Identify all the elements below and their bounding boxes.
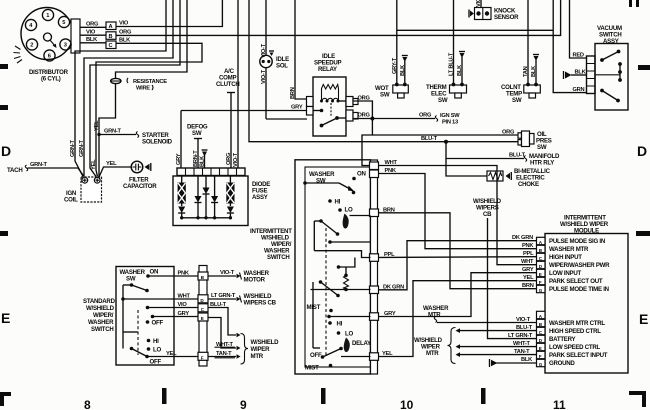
wire BLU-T to manifold htr rly <box>446 142 560 167</box>
resistance wire label <box>127 78 167 92</box>
wire TAN-T to wiper motor brace <box>208 351 241 359</box>
svg-text:BLU-T: BLU-T <box>509 153 526 159</box>
idle speedup relay caption <box>314 53 342 73</box>
grid tick x163 <box>162 388 167 404</box>
module upper pin captions <box>549 238 610 293</box>
svg-text:PPL: PPL <box>384 252 395 258</box>
svg-text:BLU-T: BLU-T <box>516 325 533 331</box>
DELAY label <box>352 340 371 347</box>
wire distributor A ORG <box>80 22 106 28</box>
svg-text:PIN 13: PIN 13 <box>442 120 458 126</box>
svg-text:PPL: PPL <box>523 251 534 257</box>
wire VIO-T from top into diode fuse assy <box>233 0 239 168</box>
svg-text:WIPER/WASHER PWR: WIPER/WASHER PWR <box>549 262 610 269</box>
resistance wire branch <box>94 0 187 177</box>
wire ORG relay lower output <box>353 113 372 119</box>
wire GRY switch to module E <box>379 267 537 317</box>
svg-text:HIGH SPEED CTRL: HIGH SPEED CTRL <box>549 328 601 335</box>
washer sw caption (standard) <box>120 269 146 283</box>
svg-text:WHT: WHT <box>385 160 398 166</box>
border tick left y107 <box>0 105 8 110</box>
svg-text:PNK: PNK <box>178 271 190 277</box>
svg-text:5: 5 <box>62 20 65 26</box>
GRY tap contact <box>327 315 370 319</box>
left rail (standard) <box>121 285 125 349</box>
svg-text:DELAY: DELAY <box>352 340 371 347</box>
wire TAN from top to colnt temp switch <box>523 0 529 85</box>
wire GRY to strip E <box>151 311 199 318</box>
svg-text:2: 2 <box>30 43 33 49</box>
diode fuse assy caption <box>252 181 270 201</box>
wire PNK to strip B <box>148 271 199 277</box>
connector A-B-C <box>106 22 116 49</box>
HI contact lower (intermittent) <box>328 321 342 328</box>
wire WHT-T to wiper motor brace <box>208 318 241 351</box>
svg-text:E: E <box>539 346 542 351</box>
standard switch connector strip <box>198 266 208 367</box>
svg-text:YEL: YEL <box>382 351 393 357</box>
svg-text:HIGH INPUT: HIGH INPUT <box>549 254 582 261</box>
svg-text:9: 9 <box>240 398 247 410</box>
svg-text:BLU-T: BLU-T <box>421 136 438 142</box>
BLK lead colnt temp switch <box>531 55 539 86</box>
zone letter D left <box>1 143 11 159</box>
svg-text:MOTOR: MOTOR <box>244 277 266 284</box>
border tick left D-row <box>0 64 8 69</box>
svg-text:1: 1 <box>46 13 49 19</box>
svg-text:MTR: MTR <box>251 353 264 360</box>
svg-text:IGN SW: IGN SW <box>440 113 460 119</box>
wire WHT-T wiper motor to module E <box>456 341 537 349</box>
svg-text:VIO-T: VIO-T <box>261 69 267 84</box>
wire ORG relay upper output <box>353 96 372 119</box>
LO contact lower with wiper pad (intermittent) <box>337 331 354 353</box>
standard wiper/washer switch caption <box>83 298 116 333</box>
washer sw caption (intermittent) <box>309 171 335 185</box>
frame corner bottom-left <box>0 392 11 406</box>
BLK lead vacuum switch <box>564 70 587 80</box>
svg-text:CB: CB <box>483 211 492 218</box>
distributor spark symbol <box>14 46 23 63</box>
svg-text:A: A <box>109 24 113 30</box>
svg-text:PNK: PNK <box>522 243 534 249</box>
svg-text:BLU-T: BLU-T <box>210 302 227 308</box>
grid number 11 <box>553 398 566 410</box>
svg-text:VIO-T: VIO-T <box>220 270 235 276</box>
wire ORG to oil pressure switch <box>372 130 518 136</box>
svg-text:GRY: GRY <box>178 311 190 317</box>
svg-text:SW: SW <box>512 97 522 104</box>
svg-text:WHT-T: WHT-T <box>513 341 531 347</box>
intermittent wiper/washer switch caption <box>250 228 292 261</box>
junction GRN-T tap <box>97 133 100 136</box>
svg-text:BLK: BLK <box>575 70 587 76</box>
LO contact upper with wiper pad (intermittent) <box>338 207 370 229</box>
therm elec switch <box>426 83 467 104</box>
BLK lead therm switch <box>457 52 465 86</box>
diode fuse assy bus <box>180 216 232 219</box>
svg-text:BLK: BLK <box>521 357 533 363</box>
svg-text:VIO: VIO <box>178 302 188 308</box>
svg-text:GRY: GRY <box>384 311 396 317</box>
wire VIO from pin A to top <box>116 0 222 27</box>
svg-text:RESISTANCE: RESISTANCE <box>133 79 167 85</box>
svg-text:WIPERS CB: WIPERS CB <box>244 300 277 307</box>
ON contact (standard) <box>146 269 158 278</box>
svg-text:COIL: COIL <box>64 197 78 204</box>
YEL tap run (intermittent) <box>341 356 371 358</box>
svg-text:WIRE: WIRE <box>136 86 150 92</box>
HI contact upper (intermittent) <box>328 199 340 206</box>
intermittent wiper switch inner box <box>305 167 371 367</box>
HI tap contact (intermittent) <box>337 258 355 269</box>
distributor cap (6 cyl) <box>21 8 80 62</box>
svg-text:LO: LO <box>345 207 353 214</box>
wire bundle 3 YEL to coil <box>90 0 180 177</box>
svg-text:TACH: TACH <box>7 167 22 174</box>
svg-text:HI: HI <box>337 321 343 328</box>
svg-text:OFF: OFF <box>150 359 162 366</box>
module lower pin captions <box>549 320 608 367</box>
BLK stub with connector arrow into diode fuse assy <box>200 150 208 168</box>
svg-text:ORG: ORG <box>358 96 371 102</box>
svg-text:YEL: YEL <box>523 275 534 281</box>
svg-text:YEL: YEL <box>106 161 117 167</box>
svg-text:STANDARD: STANDARD <box>83 298 116 305</box>
svg-text:E: E <box>1 310 10 326</box>
selector blade mid (intermittent) <box>313 219 371 348</box>
svg-text:HI: HI <box>153 338 159 345</box>
svg-text:VIO: VIO <box>86 30 96 36</box>
lower bail (standard) <box>123 331 138 333</box>
washer sw contacts (intermittent) <box>303 181 355 194</box>
wire GRY to relay <box>181 105 307 111</box>
svg-text:HTR RLY: HTR RLY <box>530 160 554 167</box>
colnt temp switch <box>501 83 540 104</box>
svg-text:DK GRN: DK GRN <box>512 235 533 241</box>
selector blade second (intermittent) <box>319 280 340 297</box>
w/shield wipers CB lead <box>473 198 537 339</box>
svg-text:WHT: WHT <box>178 294 191 300</box>
contact dot mid with tap (intermittent) <box>328 240 370 244</box>
svg-text:SWITCH: SWITCH <box>267 254 290 261</box>
svg-text:SW: SW <box>192 130 202 137</box>
svg-text:WASHER MTR CTRL: WASHER MTR CTRL <box>549 320 605 327</box>
svg-text:BLK: BLK <box>457 64 463 76</box>
washer motor lead (module side) <box>423 305 537 323</box>
wire WHT to strip D <box>123 294 199 300</box>
svg-text:TAN: TAN <box>523 66 529 77</box>
wire BLU-T long run <box>249 0 518 142</box>
svg-text:YEL: YEL <box>166 351 177 357</box>
bi-metallic electric choke <box>487 168 551 188</box>
svg-text:3: 3 <box>64 43 67 49</box>
svg-text:PARK SELECT INPUT: PARK SELECT INPUT <box>549 352 608 359</box>
wire WHT switch to module D <box>379 160 537 265</box>
wire GRN-T to starter solenoid <box>99 129 139 138</box>
border tick right y68 <box>638 65 650 70</box>
svg-text:LO: LO <box>345 331 353 338</box>
wire TAN-T wiper motor to module F <box>456 349 537 357</box>
svg-text:OFF: OFF <box>152 320 164 327</box>
svg-text:ORG: ORG <box>419 113 432 119</box>
wire distributor C BLK <box>80 37 106 43</box>
svg-text:GRN-T: GRN-T <box>104 129 122 135</box>
svg-text:(6 CYL): (6 CYL) <box>41 76 61 83</box>
svg-text:VIO-T: VIO-T <box>476 0 482 7</box>
OFF contact lower (intermittent) <box>310 347 343 359</box>
wire LT GRN-T to wipers CB <box>208 293 277 307</box>
grid number 8 <box>84 398 91 410</box>
svg-text:ORG: ORG <box>358 113 371 119</box>
svg-text:SW: SW <box>537 144 547 151</box>
washer blade (standard) <box>123 283 149 292</box>
svg-text:MTR: MTR <box>426 350 439 357</box>
svg-text:F: F <box>539 280 542 285</box>
svg-text:GRN-T: GRN-T <box>79 139 85 157</box>
svg-text:BLK: BLK <box>86 37 98 43</box>
svg-text:OFF: OFF <box>310 352 322 359</box>
diode on BRN-T leg <box>195 176 202 218</box>
svg-text:MIST: MIST <box>305 365 319 372</box>
wire VIO to strip C <box>146 302 199 309</box>
border tick right y233 <box>636 231 650 236</box>
svg-text:YEL: YEL <box>91 159 97 170</box>
svg-text:D: D <box>1 143 11 159</box>
svg-text:SOLENOID: SOLENOID <box>142 139 173 146</box>
defog switch lead <box>187 124 208 169</box>
svg-text:GRY: GRY <box>176 153 182 165</box>
svg-text:WASHER MTR: WASHER MTR <box>549 246 589 253</box>
svg-text:BLK: BLK <box>400 64 406 76</box>
grid tick x323 <box>321 388 326 404</box>
svg-text:8: 8 <box>84 398 91 410</box>
svg-text:HI: HI <box>335 199 341 206</box>
wire GRN vacuum switch from top <box>553 0 586 93</box>
zone letter D right <box>637 143 647 159</box>
wire BLK from pin C to ignition coil <box>96 37 202 176</box>
svg-text:RELAY: RELAY <box>318 66 337 73</box>
wire YEL coil to filter capacitor <box>99 161 131 177</box>
svg-text:GRN-T: GRN-T <box>70 139 76 157</box>
pulse contact run (intermittent) <box>311 289 371 291</box>
MIST lower label (intermittent) <box>305 364 332 372</box>
svg-text:ORG: ORG <box>86 22 99 28</box>
wiper motor brace (module side) <box>414 328 456 364</box>
wire distributor B VIO <box>80 30 106 36</box>
svg-text:BLK: BLK <box>531 65 537 77</box>
svg-text:CLUTCH: CLUTCH <box>216 81 240 88</box>
wires LT GRN-T label wipers CB to module D <box>508 333 533 339</box>
wire BLU-T wiper motor to module C <box>456 325 537 333</box>
svg-text:RED: RED <box>573 53 584 59</box>
svg-text:GRN: GRN <box>573 87 585 93</box>
svg-text:BRN: BRN <box>290 87 296 99</box>
diode on BLK leg <box>203 176 210 218</box>
svg-text:WHT: WHT <box>521 259 534 265</box>
svg-text:D: D <box>637 143 647 159</box>
svg-text:GRN-T: GRN-T <box>30 162 48 168</box>
wire BRN switch to module G <box>379 207 537 289</box>
svg-text:BATTERY: BATTERY <box>549 336 576 343</box>
wire ORG to ign sw pin 13 <box>372 113 460 126</box>
intermittent module caption <box>560 215 609 235</box>
diode on center leg <box>211 176 218 218</box>
grid number 10 <box>400 398 414 410</box>
MIST upper label (intermittent) <box>307 304 333 312</box>
vacuum switch assy <box>587 44 629 111</box>
starter solenoid label <box>142 132 173 146</box>
svg-text:BLK: BLK <box>200 155 206 167</box>
module upper connector A-G <box>537 237 546 292</box>
module lower connector A-G <box>537 311 546 367</box>
svg-text:WASHER: WASHER <box>88 319 114 326</box>
svg-text:ASSY: ASSY <box>252 194 268 201</box>
svg-text:LO: LO <box>153 347 161 354</box>
idle solenoid <box>260 0 307 119</box>
intermittent wiper switch outer box <box>295 160 371 374</box>
junction ORG node <box>370 117 374 121</box>
svg-text:GRY-T: GRY-T <box>392 57 398 74</box>
svg-text:PULSE MODE TIME IN: PULSE MODE TIME IN <box>549 286 609 293</box>
junction BLU-T node <box>444 140 448 144</box>
delay resistor (intermittent) <box>344 267 349 291</box>
svg-text:WIPER: WIPER <box>251 346 271 353</box>
wire YEL switch to module F <box>379 275 537 357</box>
svg-text:GRY: GRY <box>522 267 534 273</box>
wiper motor brace (standard side) <box>241 334 280 365</box>
svg-text:DK GRN: DK GRN <box>383 284 404 290</box>
svg-text:SWITCH: SWITCH <box>91 326 114 333</box>
svg-text:ON: ON <box>357 171 366 178</box>
wire GRY defog-area drop to diode fuse assy <box>176 111 182 169</box>
svg-text:W/SHIELD: W/SHIELD <box>86 305 115 312</box>
svg-text:E: E <box>639 311 648 327</box>
svg-text:F: F <box>539 354 542 359</box>
wire DK GRN switch to module A <box>379 235 537 290</box>
wire bundle 1 GRN-T to coil <box>70 0 166 177</box>
svg-text:SW: SW <box>438 97 448 104</box>
GRN label vacuum switch <box>573 87 585 93</box>
svg-text:MIST: MIST <box>307 304 321 311</box>
svg-text:YEL: YEL <box>94 120 100 131</box>
svg-text:B: B <box>109 34 113 40</box>
wire PNK switch to module B <box>379 168 537 249</box>
zone letter E right <box>639 311 648 327</box>
svg-text:LT BLU-T: LT BLU-T <box>448 52 454 76</box>
wire YEL to strip F <box>147 351 199 357</box>
wire bundle 2 GRN-T to coil <box>79 0 173 177</box>
HI contact (standard) <box>147 338 159 345</box>
svg-text:F: F <box>201 355 204 360</box>
svg-text:11: 11 <box>553 398 566 410</box>
wire GRY-T long run to vacuum GRN pin <box>397 29 553 31</box>
grid tick x483 <box>481 388 486 404</box>
svg-text:PARK SELECT OUT: PARK SELECT OUT <box>549 278 603 285</box>
zone letter E left <box>1 310 10 326</box>
intermittent switch connector strip <box>370 160 379 374</box>
svg-text:GROUND: GROUND <box>549 360 575 367</box>
tach lead <box>7 162 84 177</box>
svg-text:10: 10 <box>400 398 414 410</box>
wot switch <box>375 83 408 99</box>
filter capacitor <box>123 161 157 190</box>
svg-text:BRN-T: BRN-T <box>193 150 199 167</box>
svg-text:LOW SPEED CTRL: LOW SPEED CTRL <box>549 344 601 351</box>
svg-text:CHOKE: CHOKE <box>518 181 539 188</box>
frame corner bottom-right <box>629 391 646 407</box>
svg-text:BRN: BRN <box>383 207 395 213</box>
svg-text:SOL: SOL <box>276 63 288 70</box>
knock sensor <box>469 0 519 21</box>
distributor caption <box>29 69 69 83</box>
wire BLU-T to electric choke <box>446 159 487 177</box>
svg-text:PULSE MODE SIG IN: PULSE MODE SIG IN <box>549 238 605 245</box>
A/C comp clutch lead <box>216 68 240 168</box>
lower blade (standard) <box>130 347 162 366</box>
svg-text:E: E <box>201 316 204 321</box>
svg-text:ORG: ORG <box>226 152 232 165</box>
OFF contact upper (standard) <box>146 320 164 327</box>
wire ORG feed to wiper switch strip <box>362 119 372 166</box>
svg-text:VIO: VIO <box>119 21 129 27</box>
wire GRY-T to wot switch <box>392 0 398 85</box>
standard wiper switch box <box>116 267 174 366</box>
wire ORG from pin B long run <box>116 0 561 36</box>
svg-text:TAN-T: TAN-T <box>514 349 530 355</box>
diode fuse assy connector row <box>177 168 245 176</box>
svg-text:TAN-T: TAN-T <box>216 351 232 357</box>
svg-text:VIO-T: VIO-T <box>516 317 531 323</box>
ON contact (intermittent) <box>352 171 365 181</box>
frame corner top-right <box>629 0 639 7</box>
intermittent wiper module box <box>545 234 628 374</box>
svg-text:ON: ON <box>150 269 159 276</box>
diode fuse assy box <box>173 176 248 226</box>
svg-text:LOW INPUT: LOW INPUT <box>549 270 581 277</box>
svg-text:WIPER/: WIPER/ <box>93 312 114 319</box>
border tick left y233 <box>0 231 8 236</box>
svg-text:SW: SW <box>380 92 390 99</box>
svg-text:CAPACITOR: CAPACITOR <box>123 183 157 190</box>
wire VIO-T to washer motor <box>208 270 270 284</box>
BLK lead wot switch <box>400 56 408 86</box>
svg-text:GRY: GRY <box>291 105 303 111</box>
oil pressure switch <box>518 131 552 151</box>
svg-text:E: E <box>539 272 542 277</box>
idle speedup relay <box>307 77 359 136</box>
fuse element right <box>226 176 234 218</box>
svg-text:VIO-T: VIO-T <box>233 152 239 167</box>
delay dashed link <box>325 228 327 355</box>
fuse element left <box>178 176 186 218</box>
svg-text:C: C <box>109 43 113 49</box>
BLK ground lead to module G <box>490 357 537 367</box>
wire LT BLU-T from top to therm switch <box>448 0 454 85</box>
svg-text:SENSOR: SENSOR <box>494 14 519 21</box>
svg-text:W/SHIELD: W/SHIELD <box>251 339 280 346</box>
svg-text:ORG: ORG <box>502 130 515 136</box>
wire PPL switch to module C <box>379 251 537 258</box>
wire BRN to relay <box>290 0 307 99</box>
LO contact (standard) <box>147 347 162 354</box>
wire BLU-T to wiper motor brace <box>208 302 241 337</box>
svg-text:LT GRN-T: LT GRN-T <box>211 293 236 299</box>
ignition coil <box>64 177 102 204</box>
dashed link (standard) <box>137 310 139 355</box>
svg-text:ORG: ORG <box>119 30 132 36</box>
svg-text:PNK: PNK <box>385 168 397 174</box>
